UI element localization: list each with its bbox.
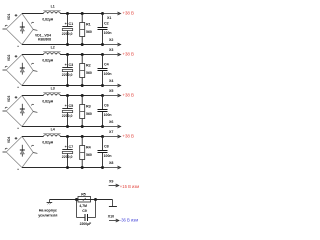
svg-text:+: + <box>65 63 67 67</box>
svg-text:0,82µH: 0,82µH <box>42 140 53 144</box>
svg-text:+38 В: +38 В <box>122 93 134 98</box>
wire bottom rail channel 1 <box>22 44 103 46</box>
wire AC input stub left of bridge VD2 <box>3 69 7 71</box>
svg-text:X10: X10 <box>108 215 114 219</box>
terminal X1 output arrow +38V <box>103 12 121 20</box>
capacitor C8 100n <box>98 137 112 168</box>
resistor R5 4,7M <box>78 192 91 208</box>
svg-text:VD4: VD4 <box>7 137 11 144</box>
terminal X6 output arrow <box>103 120 121 128</box>
svg-text:R5: R5 <box>81 192 86 196</box>
inductor L4 <box>42 128 60 145</box>
node junction dots on top rail <box>66 135 104 138</box>
svg-text:X5: X5 <box>109 89 113 93</box>
svg-text:C1: C1 <box>69 22 74 26</box>
svg-text:VD1: VD1 <box>7 14 11 21</box>
node VD1...VD4 type note <box>35 33 51 41</box>
capacitor C1 electrolytic 2200,0 <box>62 14 73 45</box>
wire top rail from L4 to output node <box>60 136 102 138</box>
svg-text:560: 560 <box>86 71 92 75</box>
bridge rectifier VD2 <box>5 55 37 88</box>
svg-text:2200,0: 2200,0 <box>62 73 73 77</box>
capacitor C2 100n <box>98 14 112 45</box>
inductor L1 <box>42 5 60 22</box>
wire top rail from L1 to output node <box>60 13 102 15</box>
svg-text:C8: C8 <box>104 145 109 149</box>
terminal X10 arrow -36V <box>108 215 119 223</box>
svg-text:VD3: VD3 <box>7 96 11 103</box>
capacitor C9 2200µF <box>77 200 96 226</box>
wire top rail from bridge to L1 <box>22 13 43 15</box>
svg-text:R3: R3 <box>86 104 91 108</box>
svg-text:X3: X3 <box>109 48 113 52</box>
svg-text:C5: C5 <box>69 104 74 108</box>
svg-text:-36 В изм: -36 В изм <box>120 218 138 223</box>
svg-text:0,82µH: 0,82µH <box>42 17 53 21</box>
bridge rectifier VD3 <box>5 96 37 129</box>
capacitor C6 100n <box>98 96 112 127</box>
node +38V label <box>122 93 134 98</box>
svg-text:+38 В: +38 В <box>122 134 134 139</box>
svg-text:C9: C9 <box>82 209 87 213</box>
svg-text:X6: X6 <box>109 120 113 124</box>
node +15V label <box>120 184 139 189</box>
svg-text:На корпус: На корпус <box>39 209 57 213</box>
bridge rectifier VD4 <box>5 137 37 170</box>
node junction dots on bottom rail <box>66 43 104 46</box>
node junction dots on top rail <box>66 94 104 97</box>
svg-text:X2: X2 <box>109 38 113 42</box>
svg-text:+: + <box>65 145 67 149</box>
wire top rail from L2 to output node <box>60 54 102 56</box>
svg-text:0,82µH: 0,82µH <box>42 99 53 103</box>
svg-text:+: + <box>65 22 67 26</box>
capacitor C5 electrolytic 2200,0 <box>62 96 73 127</box>
node junction dots on top rail <box>66 12 104 15</box>
svg-text:100n: 100n <box>104 31 112 35</box>
terminal X7 output arrow +38V <box>103 130 121 138</box>
svg-text:R2: R2 <box>86 63 91 67</box>
svg-text:C7: C7 <box>69 145 74 149</box>
svg-text:560: 560 <box>86 30 92 34</box>
svg-text:100n: 100n <box>104 154 112 158</box>
svg-text:X4: X4 <box>109 79 113 83</box>
svg-text:2200,0: 2200,0 <box>62 32 73 36</box>
bridge rectifier VD1 <box>5 14 37 47</box>
terminal X5 output arrow +38V <box>103 89 121 97</box>
svg-text:+: + <box>65 104 67 108</box>
resistor R2 560 <box>80 55 92 86</box>
wire AC input stub left of bridge VD1 <box>3 28 7 30</box>
svg-text:R1: R1 <box>86 22 91 26</box>
wire bottom rail channel 4 <box>22 167 103 169</box>
svg-text:4,7M: 4,7M <box>79 204 87 208</box>
svg-text:VD2: VD2 <box>7 55 11 62</box>
wire AC input stub left of bridge VD4 <box>3 151 7 153</box>
terminal X8 output arrow <box>103 161 121 169</box>
svg-text:0,82µH: 0,82µH <box>42 58 53 62</box>
node junction dots on bottom rail <box>66 166 104 169</box>
capacitor C3 electrolytic 2200,0 <box>62 55 73 86</box>
inductor L3 <box>42 87 60 104</box>
resistor R1 560 <box>80 14 92 45</box>
svg-text:усилителя: усилителя <box>38 214 57 218</box>
wire AC input stub left of bridge VD3 <box>3 110 7 112</box>
node -36V label <box>120 218 138 223</box>
wire chassis bus <box>50 199 113 201</box>
resistor R4 560 <box>80 137 92 168</box>
wire top rail from bridge to L2 <box>22 54 43 56</box>
svg-text:X7: X7 <box>109 130 113 134</box>
node label: На корпус усилителя <box>38 209 57 218</box>
ground chassis symbol left (to amplifier chassis) <box>47 200 53 205</box>
node +38V label <box>122 52 134 57</box>
terminal X3 output arrow +38V <box>103 48 121 56</box>
node junction dots chassis bus <box>75 198 97 201</box>
svg-text:L4: L4 <box>51 128 55 132</box>
inductor L2 <box>42 46 60 63</box>
capacitor C4 100n <box>98 55 112 86</box>
svg-text:X9: X9 <box>109 179 113 183</box>
node +38V label <box>122 11 134 16</box>
ground chassis symbol right <box>109 200 117 207</box>
wire bottom rail channel 3 <box>22 126 103 128</box>
svg-text:560: 560 <box>86 153 92 157</box>
svg-text:L3: L3 <box>51 87 55 91</box>
svg-text:L2: L2 <box>51 46 55 50</box>
svg-text:+38 В: +38 В <box>122 11 134 16</box>
svg-text:2200,0: 2200,0 <box>62 155 73 159</box>
wire top rail from L3 to output node <box>60 95 102 97</box>
svg-text:KBU808: KBU808 <box>38 37 51 41</box>
svg-text:+38 В: +38 В <box>122 52 134 57</box>
svg-text:2200µF: 2200µF <box>80 222 92 226</box>
svg-text:2200,0: 2200,0 <box>62 114 73 118</box>
node junction dots on top rail <box>66 53 104 56</box>
resistor R3 560 <box>80 96 92 127</box>
svg-text:100n: 100n <box>104 113 112 117</box>
wire top rail from bridge to L3 <box>22 95 43 97</box>
capacitor C7 electrolytic 2200,0 <box>62 137 73 168</box>
wire top rail from bridge to L4 <box>22 136 43 138</box>
terminal X4 output arrow <box>103 79 121 87</box>
svg-text:+15 В изм: +15 В изм <box>120 184 139 189</box>
svg-text:C6: C6 <box>104 104 109 108</box>
svg-text:X8: X8 <box>109 161 113 165</box>
node junction dots on bottom rail <box>66 84 104 87</box>
node junction dots on bottom rail <box>66 125 104 128</box>
svg-text:560: 560 <box>86 112 92 116</box>
terminal X2 output arrow <box>103 38 121 46</box>
svg-text:X1: X1 <box>107 16 111 20</box>
node +38V label <box>122 134 134 139</box>
svg-text:L1: L1 <box>51 5 55 9</box>
svg-text:100n: 100n <box>104 72 112 76</box>
wire bottom rail channel 2 <box>22 85 103 87</box>
svg-text:C2: C2 <box>104 22 109 26</box>
terminal X9 arrow +15V <box>109 179 119 187</box>
svg-text:C3: C3 <box>69 63 74 67</box>
